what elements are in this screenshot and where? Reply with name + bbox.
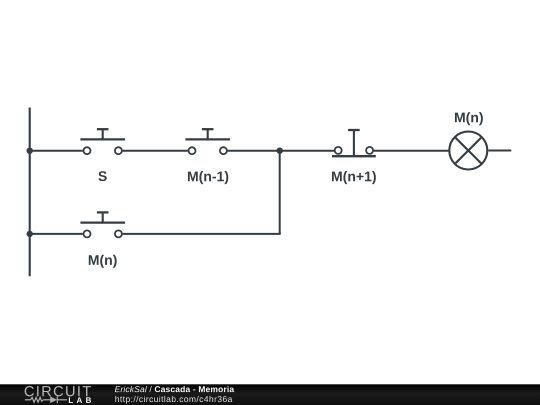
pushbutton M(n) normally open <box>80 212 125 237</box>
pushbutton M(n+1) normally closed <box>332 130 376 156</box>
wire rail to M(n) rung2 <box>30 233 83 235</box>
wire M(n+1) to lamp <box>374 150 449 152</box>
lamp M(n) <box>449 132 487 170</box>
junction dot rail/rung1 <box>27 148 33 154</box>
label M(n) lamp <box>455 112 483 125</box>
logo LAB text <box>69 397 91 403</box>
label M(n+1) <box>332 171 376 184</box>
junction dot branch node <box>277 148 283 154</box>
footer url <box>115 396 232 404</box>
left power rail <box>29 108 31 277</box>
footer title ErickSal / Cascada - Memoria <box>115 386 234 392</box>
wire branch vertical <box>279 151 281 234</box>
wire M(n) to branch corner <box>123 233 281 235</box>
wire rail to S <box>30 150 83 152</box>
pushbutton S normally open <box>80 129 125 154</box>
label M(n-1) <box>188 171 228 184</box>
pushbutton M(n-1) normally open <box>185 129 230 154</box>
label S <box>98 171 106 181</box>
junction dot rail/rung2 <box>27 231 33 237</box>
logo CIRCUIT text <box>25 386 91 396</box>
footer bar <box>0 384 540 405</box>
wire M(n-1) to M(n+1) <box>228 150 335 152</box>
label M(n) rung2 <box>89 255 117 268</box>
wire lamp to output <box>488 150 511 152</box>
logo wire resistor diode <box>25 397 67 404</box>
wire S to M(n-1) <box>123 150 188 152</box>
